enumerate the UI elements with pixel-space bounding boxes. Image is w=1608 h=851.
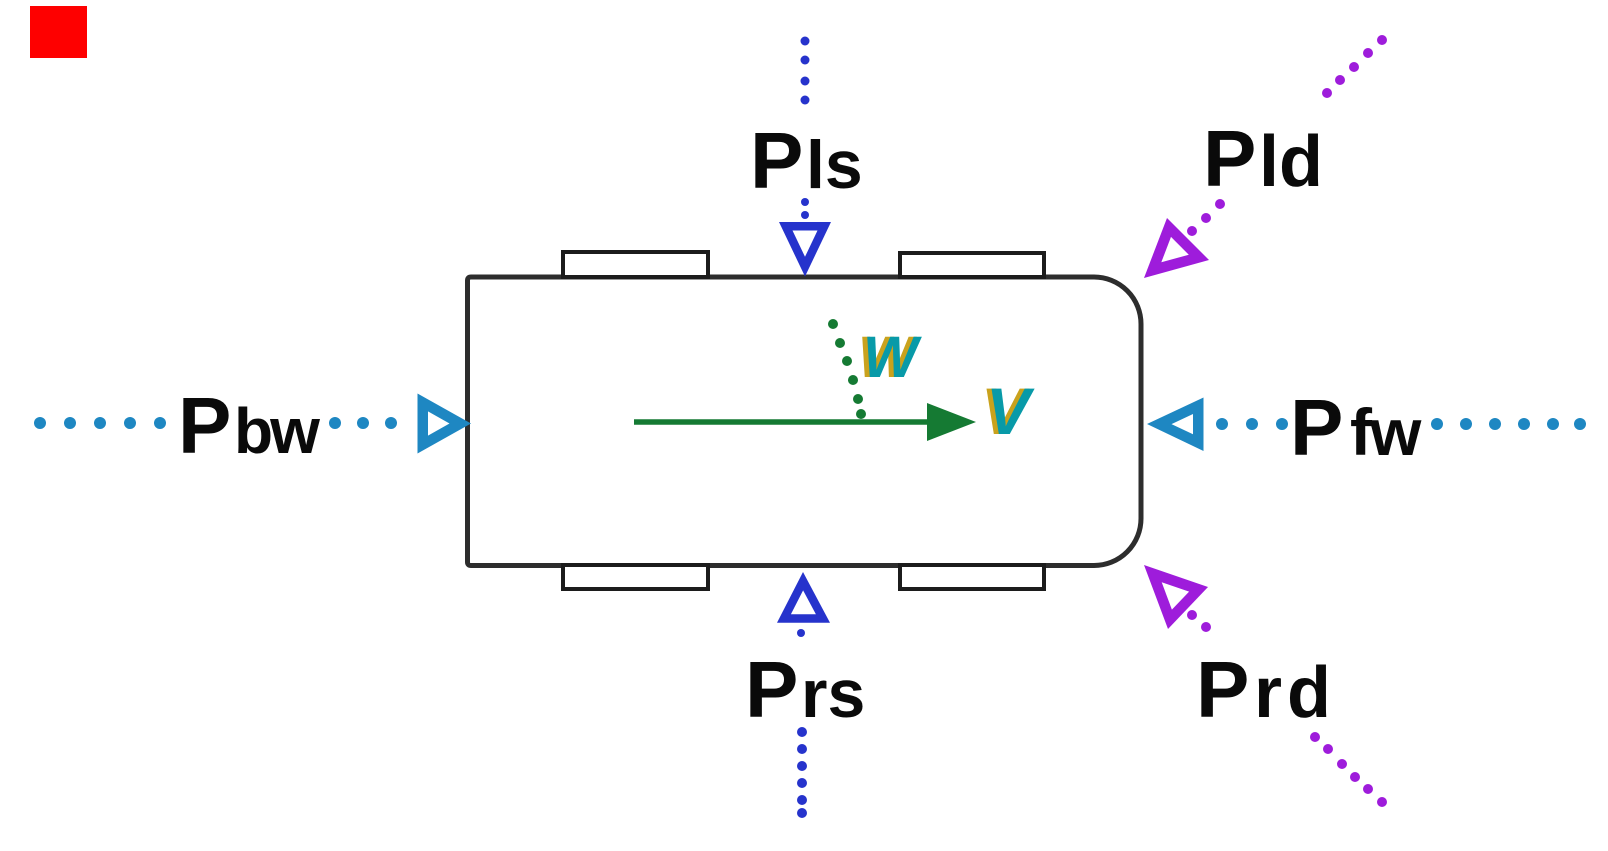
car body outline [468,277,1142,566]
label Pld [1203,114,1323,203]
Pfw dotted line right [1216,418,1586,430]
svg-text:bw: bw [234,395,320,467]
svg-text:P: P [1290,383,1343,472]
svg-text:V: V [986,374,1035,448]
wheel top-left [563,252,708,277]
label V [981,374,1035,448]
label w [858,325,922,390]
svg-text:W: W [863,325,922,390]
svg-text:P: P [750,116,803,205]
Prd arrowhead [1144,565,1208,629]
Pfw arrowhead [1147,398,1204,452]
Pls dotted line upper [801,37,810,220]
label Pls [750,116,863,205]
svg-text:fw: fw [1350,395,1422,469]
wheel bottom-right [900,565,1044,589]
Pld arrowhead [1144,218,1209,278]
svg-text:P: P [745,645,798,734]
Pls arrowhead [779,222,831,277]
red artifact square [30,6,87,58]
label Pbw [178,381,320,470]
Pbw dotted line left [34,417,397,429]
svg-text:ld: ld [1259,122,1323,202]
label Prs [745,645,865,734]
Prd dotted diagonal lower [1187,610,1387,807]
angular rate w dotted line [828,319,866,419]
Prs dotted line lower [797,629,807,818]
wheel bottom-left [563,565,708,589]
label Pfw [1290,383,1422,472]
Pld dotted diagonal upper [1187,35,1387,236]
svg-text:rs: rs [801,656,865,732]
velocity vector V green arrow [634,403,976,441]
Pbw arrowhead [418,394,472,454]
svg-text:P: P [1203,114,1256,203]
svg-text:P: P [1196,645,1249,734]
wheel top-right [900,253,1044,277]
svg-text:P: P [178,381,231,470]
svg-text:ls: ls [806,127,863,203]
label Prd [1196,645,1336,734]
Prs arrowhead [777,572,830,623]
svg-text:rd: rd [1254,653,1336,733]
